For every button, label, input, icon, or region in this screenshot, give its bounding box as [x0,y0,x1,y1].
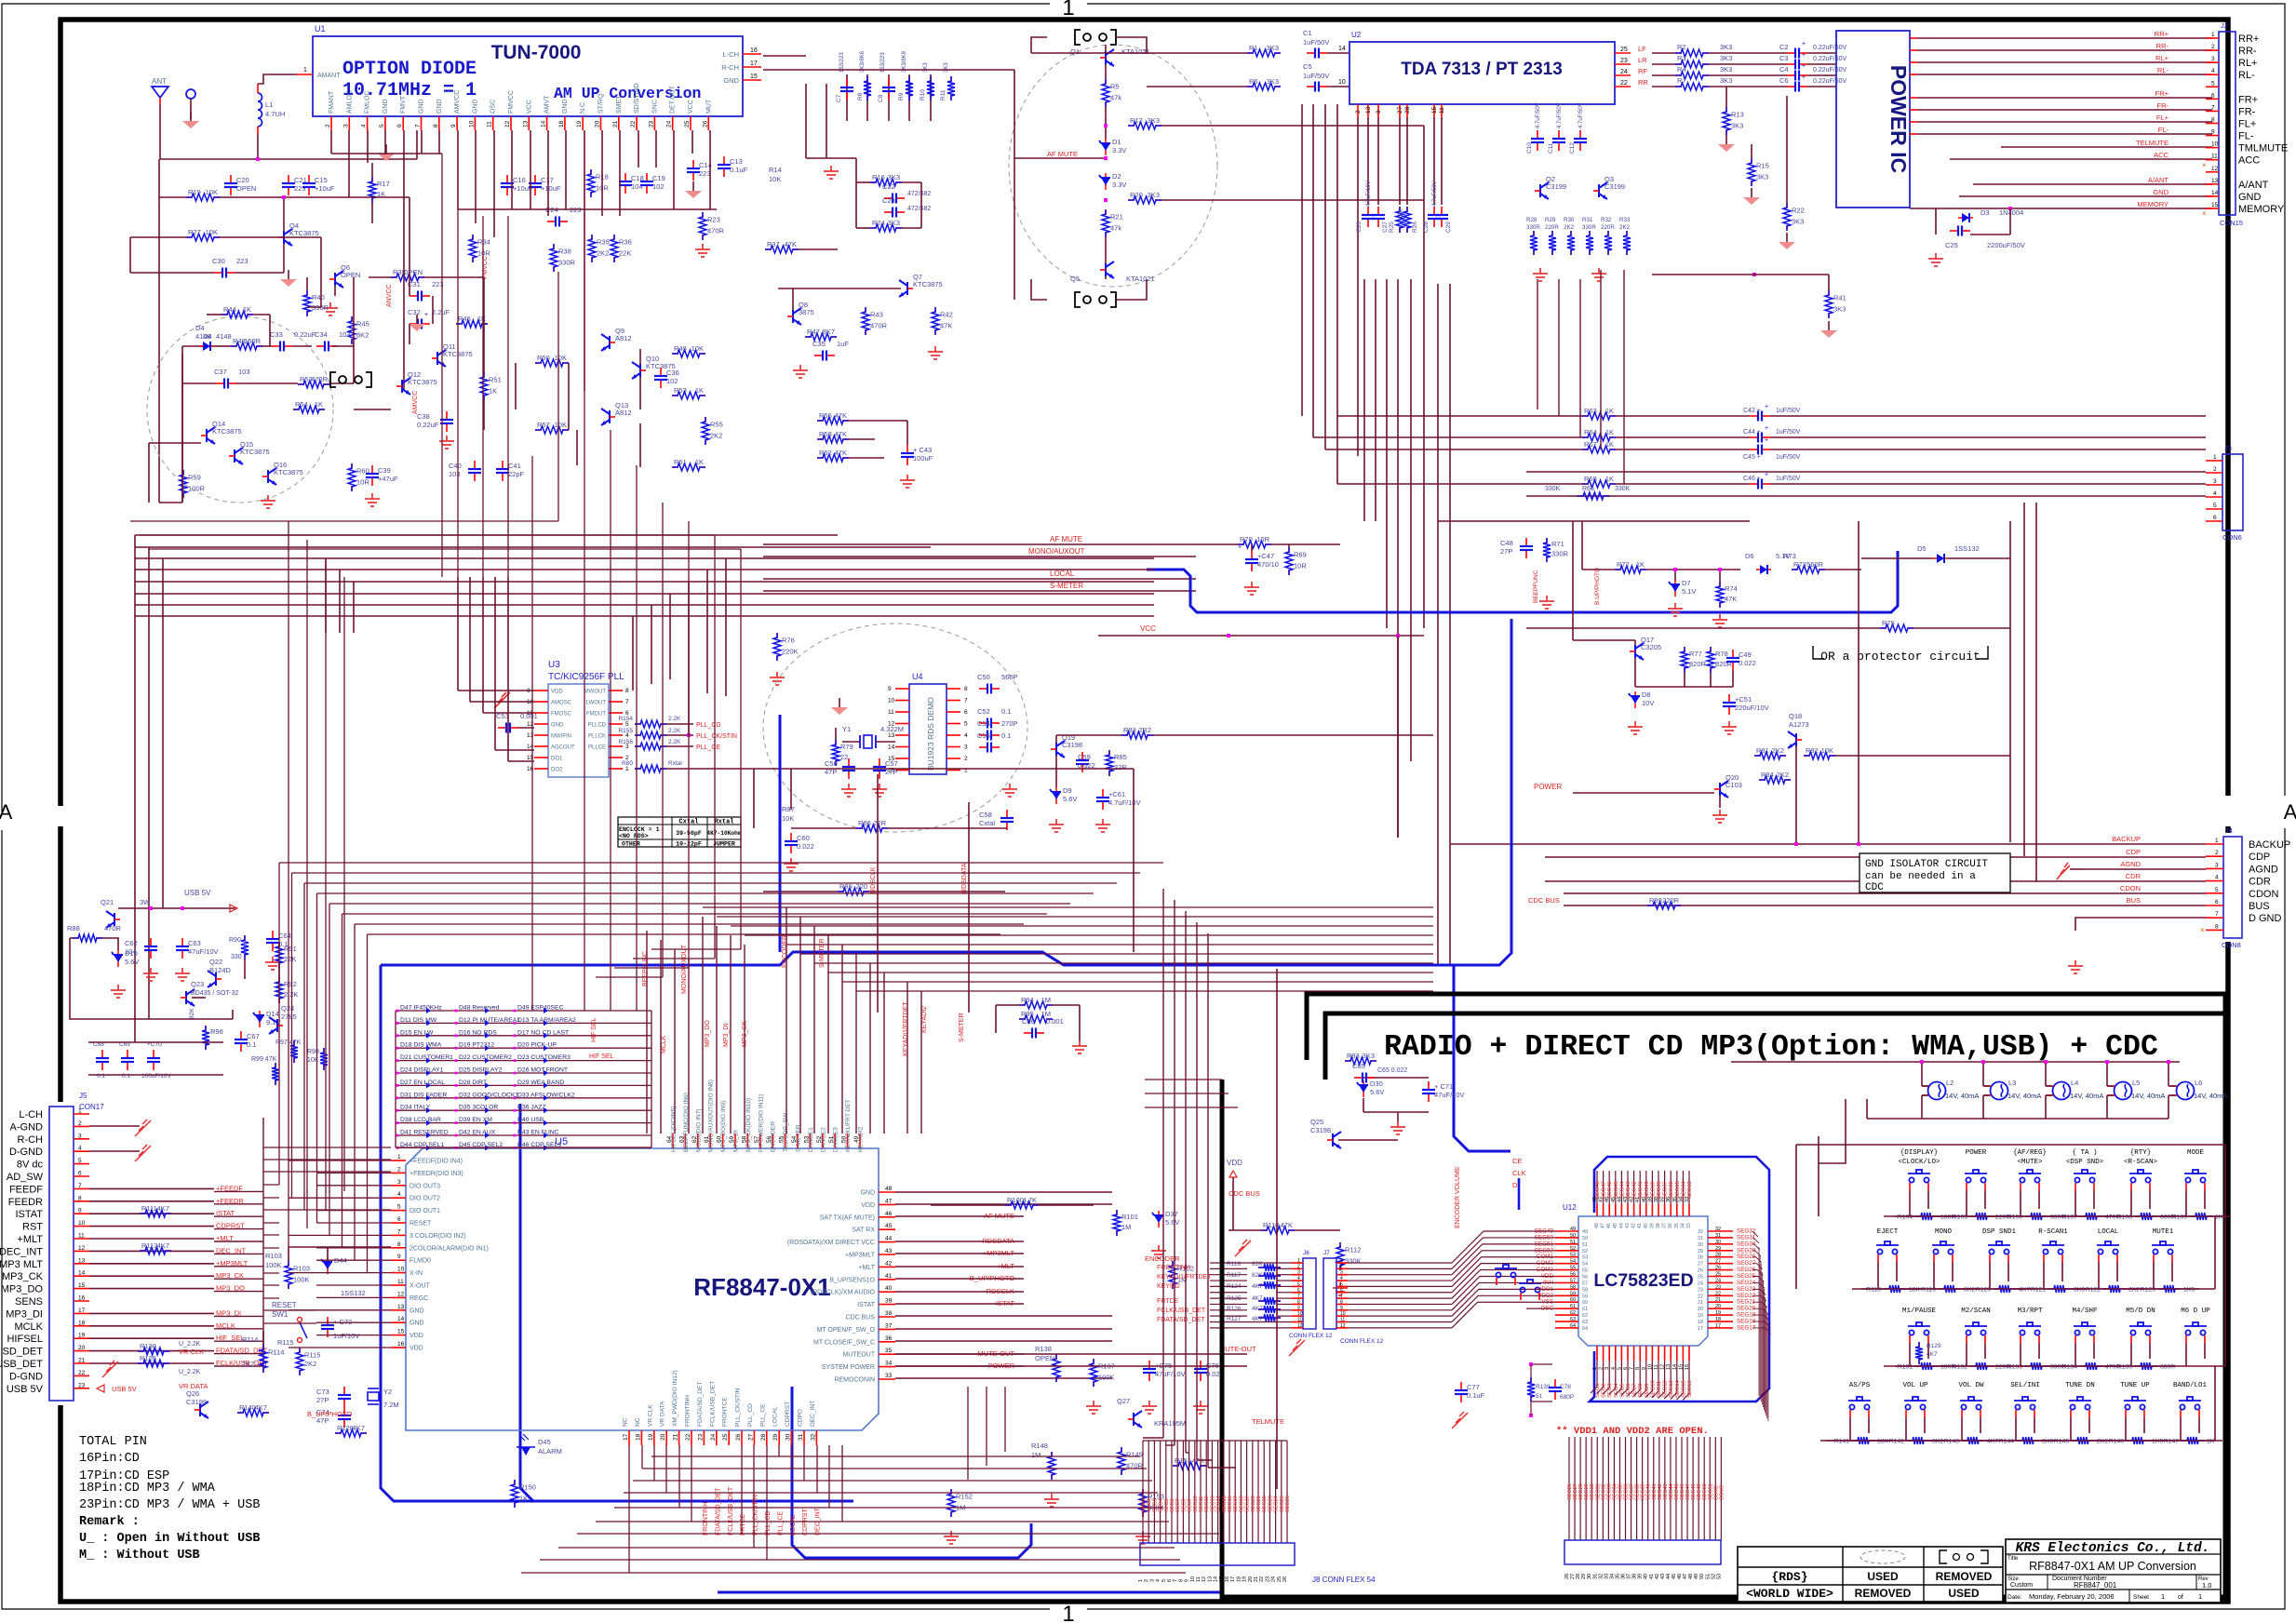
svg-text:42: 42 [1631,1223,1637,1228]
resistor R101 1M [1116,1210,1118,1215]
svg-text:3: 3 [1297,1270,1300,1276]
wire fan feeds from left [1142,1441,1144,1452]
resistor R103 100K [288,1261,289,1267]
earth [831,707,848,715]
wire R19 row [186,196,193,198]
diode D6 5.1V [1756,569,1771,570]
transistor Q10 KTC3875 [632,362,640,379]
svg-text:8: 8 [1340,1299,1343,1305]
svg-text:FR-: FR- [2157,101,2169,110]
svg-text:R47: R47 [807,328,820,336]
svg-text:4K7: 4K7 [255,1403,267,1412]
svg-text:MCLK: MCLK [14,1321,43,1333]
svg-text:12: 12 [1202,1576,1207,1582]
svg-text:F-POWER(DIO IN11): F-POWER(DIO IN11) [758,1093,764,1152]
svg-text:19: 19 [1242,1576,1248,1582]
svg-text:R64: R64 [1584,428,1597,436]
svg-text:C3199: C3199 [1546,182,1566,191]
antenna ANT [152,87,168,98]
capacitor C58 Cxtal [1006,810,1008,817]
svg-text:4: 4 [2213,490,2217,497]
svg-text:SEG35: SEG35 [1675,1181,1681,1199]
wire J7 fanout right [1348,1262,1452,1264]
svg-text:TUNE DN: TUNE DN [2065,1382,2095,1389]
transistor Q27 KRA105M [1134,1411,1142,1428]
svg-text:2.2K: 2.2K [668,716,681,722]
svg-text:MP3 MLT: MP3 MLT [0,1259,43,1270]
svg-text:22K: 22K [619,249,631,258]
svg-text:9: 9 [1340,1306,1343,1311]
svg-text:14: 14 [78,1270,86,1277]
svg-text:45: 45 [885,1223,893,1229]
svg-text:C103: C103 [1725,781,1742,789]
svg-text:SEG23: SEG23 [1268,1496,1273,1512]
svg-text:R44: R44 [223,305,236,314]
resistor R38 330R [553,244,555,249]
svg-text:13: 13 [78,1257,86,1264]
svg-text:8K2: 8K2 [1932,1439,1943,1445]
svg-text:OPEN: OPEN [341,271,360,279]
svg-text:58: 58 [1570,1284,1576,1290]
svg-text:ACC: ACC [2238,155,2260,167]
svg-text:C2: C2 [1779,43,1789,51]
svg-text:C77: C77 [1467,1383,1480,1391]
svg-text:25: 25 [1715,1272,1721,1278]
svg-text:32: 32 [1698,1229,1703,1235]
lamp L2 [1928,1082,1946,1100]
LCD driver U12 LC75823ED [1578,1216,1708,1346]
wire lamp feeds [1731,1061,1768,1063]
resistor R82b 10K [1804,755,1810,757]
svg-text:ISTAT: ISTAT [15,1209,43,1220]
transistor Q9 A812 [601,334,610,351]
resistor R42 47K [934,307,936,313]
svg-text:MWIFIN: MWIFIN [551,734,571,740]
svg-text:SEG18: SEG18 [1239,1496,1244,1512]
svg-text:KEYADI1/FRTDET: KEYADI1/FRTDET [903,1001,909,1056]
svg-text:CON17: CON17 [79,1103,104,1111]
svg-text:5: 5 [397,1204,401,1211]
svg-text:22: 22 [1620,80,1628,87]
svg-text:18: 18 [558,120,565,127]
svg-text:MP3_CK(DIO IN10): MP3_CK(DIO IN10) [745,1098,752,1152]
svg-text:RDSDATA: RDSDATA [961,863,968,893]
svg-text:RL-: RL- [2157,66,2169,74]
svg-text:Y2: Y2 [383,1388,392,1396]
svg-text:+: + [1802,41,1806,47]
svg-text:R146: R146 [2109,1439,2124,1445]
resistor R49 10K [672,353,678,355]
svg-text:C38: C38 [417,412,430,421]
ENCLOCK table [618,817,741,847]
svg-text:56: 56 [1570,1272,1576,1278]
svg-text:D48 Reserved: D48 Reserved [459,1005,500,1012]
svg-text:R69: R69 [1294,551,1307,559]
svg-text:DET.OUT: DET.OUT [670,85,677,114]
transistor Q13 A812 [601,409,610,425]
svg-text:38: 38 [885,1310,893,1317]
resistor R79 22 [835,740,837,745]
svg-text:R73: R73 [1793,560,1806,569]
svg-text:RF: RF [1638,67,1647,75]
svg-text:R93: R93 [1347,1052,1360,1060]
svg-text:can be needed in a: can be needed in a [1865,871,1976,882]
svg-text:5.6V: 5.6V [125,958,139,966]
svg-text:330R: 330R [1526,224,1540,231]
svg-text:10K: 10K [782,814,794,823]
wire [288,1247,289,1261]
svg-text:CDR: CDR [2249,877,2271,888]
svg-text:FCLK/USB_DET: FCLK/USB_DET [728,1486,734,1536]
svg-text:R10: R10 [920,89,926,101]
svg-text:R121: R121 [2031,1287,2046,1294]
resistor R9 [908,76,910,82]
svg-text:+: + [1802,63,1806,70]
svg-text:13: 13 [2211,178,2219,184]
svg-text:A-GND: A-GND [10,1121,44,1133]
svg-text:KTC3875: KTC3875 [274,468,303,476]
svg-text:D12 PI MUTE/AREA1: D12 PI MUTE/AREA1 [459,1017,520,1024]
svg-text:CDON: CDON [2120,884,2141,892]
svg-text:220uF/10V: 220uF/10V [1735,704,1769,712]
svg-text:R34: R34 [477,238,490,247]
svg-text:10: 10 [397,1267,405,1273]
svg-text:FR-: FR- [2238,106,2256,117]
svg-text:2K2: 2K2 [242,1360,254,1368]
svg-text:270P: 270P [1001,719,1018,728]
capacitor C22 472/682 [884,197,892,199]
svg-text:FRTCE: FRTCE [740,1513,746,1536]
svg-text:R150: R150 [519,1483,536,1492]
svg-text:11: 11 [2211,154,2218,160]
svg-text:OPEN: OPEN [1035,1354,1054,1362]
wire left edge verticals [134,535,136,1042]
svg-text:R120: R120 [1976,1287,1991,1294]
svg-text:23: 23 [1715,1284,1721,1290]
wire [1105,237,1107,263]
wire U3 left feeds [457,577,459,691]
svg-text:M_ : Without USB: M_ : Without USB [79,1549,200,1563]
svg-text:DANCE1: DANCE1 [808,1127,814,1152]
svg-text:Monday, February 20, 2006: Monday, February 20, 2006 [2029,1592,2115,1601]
svg-text:D25 DISPLAY2: D25 DISPLAY2 [459,1067,503,1074]
svg-text:7: 7 [1173,1579,1178,1582]
svg-text:R26: R26 [1412,221,1418,233]
svg-text:SEG41: SEG41 [1638,1181,1644,1199]
svg-text:10R: 10R [356,478,369,487]
svg-text:MONO: MONO [1935,1228,1953,1236]
svg-text:2: 2 [1144,1579,1149,1582]
svg-text:5: 5 [1340,1281,1343,1287]
svg-text:1: 1 [78,1108,82,1115]
svg-text:17: 17 [1715,1323,1721,1329]
svg-text:24: 24 [1698,1281,1703,1286]
capacitor C36 102 [660,368,662,375]
svg-text:KTC3875: KTC3875 [212,427,242,436]
svg-text:4148: 4148 [216,332,232,341]
svg-text:3K3: 3K3 [1720,76,1732,85]
wire U5 right rows [895,1191,1112,1193]
svg-text:LC75823ED: LC75823ED [1593,1270,1693,1291]
resistor R138 OPEN [1055,1354,1057,1360]
svg-text:1uF/50V: 1uF/50V [1776,454,1801,461]
svg-text:R85: R85 [1114,753,1127,761]
dashed ellipse RDS demod [763,624,1027,832]
svg-text:61: 61 [1570,1304,1576,1309]
connector J6 CONN FLEX 12 [1303,1258,1316,1329]
wire [1438,520,1750,522]
wire [216,345,231,347]
wire bus rb [763,55,806,57]
capacitor C41 22pF [502,461,504,468]
svg-text:5: 5 [964,721,968,728]
resistor R69 10R [1288,547,1290,553]
resistor R93 3K3 [1345,1060,1351,1062]
svg-text:10: 10 [1340,1311,1346,1317]
svg-text:44: 44 [885,1236,893,1242]
svg-text:SEG12: SEG12 [1204,1496,1210,1512]
resistor R114 2K2 [262,1345,264,1350]
ground [1928,253,1943,266]
zener D9 5.6V [1055,787,1057,804]
wire [778,288,901,289]
svg-text:L2: L2 [1946,1079,1954,1087]
wire [1935,208,1937,235]
svg-text:C35: C35 [812,340,826,348]
svg-text:3K3: 3K3 [1756,173,1768,181]
wire q-circle area [182,345,216,347]
svg-text:OTHER: OTHER [622,841,640,848]
svg-text:10K: 10K [691,344,704,353]
svg-text:U12: U12 [1563,1203,1577,1212]
svg-text:28: 28 [1715,1253,1721,1258]
ground [365,493,380,506]
svg-text:M2/SCAN: M2/SCAN [1961,1308,1991,1315]
wire mesh above U3 [135,557,1154,559]
resistor R17 1K [371,177,373,182]
wire verticals region B [805,84,807,158]
svg-text:R15: R15 [1756,162,1769,170]
wire J5 out rows [89,1187,214,1189]
svg-text:10: 10 [1297,1311,1303,1317]
svg-text:DSP SND1: DSP SND1 [1982,1228,2017,1236]
wire long rails center [1301,104,1303,416]
svg-text:29: 29 [1698,1249,1703,1254]
svg-text:0.22uF/50V: 0.22uF/50V [1813,56,1847,62]
svg-text:43: 43 [885,1248,893,1254]
svg-text:C3199: C3199 [186,1398,207,1406]
svg-text:1K: 1K [489,387,497,396]
resistor R128 4K7 [335,1432,342,1434]
svg-text:9: 9 [888,686,892,692]
svg-text:0.1: 0.1 [122,1073,130,1080]
svg-text:223: 223 [236,257,248,265]
svg-text:POWER IC: POWER IC [1886,65,1911,173]
resistor R56 47K [817,420,824,422]
svg-text:KTA1021: KTA1021 [1121,47,1150,56]
connector J8 CONN FLEX 54 fan [1142,1452,1144,1543]
svg-text:2K2: 2K2 [1777,771,1789,779]
audio processor U2 TDA 7313 / PT 2313 [1349,42,1615,104]
svg-text:51: 51 [1536,1393,1543,1400]
svg-text:R25: R25 [1389,221,1395,233]
svg-text:SEG2: SEG2 [1147,1498,1152,1512]
svg-text:R8: R8 [857,92,864,101]
capacitor C20 OPEN [230,175,232,182]
svg-text:C65 0.022: C65 0.022 [1377,1067,1407,1074]
capacitor C38 0.22uF [446,411,448,419]
wire J5 staircase risers [278,863,280,1185]
svg-text:59: 59 [1570,1291,1576,1296]
svg-text:MUTEOUT: MUTEOUT [842,1352,875,1359]
svg-text:R-SCAN1: R-SCAN1 [2038,1228,2068,1236]
transistor Q14 KTC3875 [207,427,215,444]
diode D44 1SS132 [327,1257,329,1274]
capacitor C17 10uF [534,175,536,182]
ground [1002,784,1017,797]
capacitor C62 104 [150,938,152,946]
svg-text:82K: 82K [189,1008,195,1019]
svg-text:+C51: +C51 [1735,695,1752,704]
svg-text:R115: R115 [277,1338,293,1347]
svg-text:VCC: VCC [688,100,694,114]
svg-text:+10uF: +10uF [541,184,561,193]
wire [1251,544,1253,551]
svg-text:GND: GND [436,99,443,114]
svg-text:Remark :: Remark : [79,1515,140,1529]
svg-text:MUTE1: MUTE1 [2153,1228,2174,1236]
svg-text:SEG33: SEG33 [1687,1181,1693,1199]
capacitor C21 223 [288,175,289,182]
svg-text:0.1: 0.1 [1001,731,1011,740]
ground [1628,721,1643,734]
svg-text:3.3V: 3.3V [1112,181,1126,189]
svg-text:SEG10: SEG10 [1193,1496,1199,1512]
svg-text:D3: D3 [1980,208,1990,217]
svg-text:{DISPLAY}: {DISPLAY} [1900,1149,1939,1157]
svg-text:Rxtal: Rxtal [668,760,682,767]
svg-text:1uF/50V: 1uF/50V [1303,72,1329,80]
svg-text:3 COLOR(DIO IN2): 3 COLOR(DIO IN2) [410,1233,466,1240]
svg-text:R61: R61 [674,458,687,466]
svg-text:4.7uF/50V: 4.7uF/50V [1557,102,1563,128]
transistor Q4 KTC3875 [284,229,292,246]
diode option matrix D11-D49 [396,1010,651,1012]
capacitor C60 0.022 [790,833,792,840]
svg-text:R94: R94 [1021,996,1034,1004]
svg-text:D2: D2 [1112,172,1121,181]
svg-text:4.7K: 4.7K [1023,1196,1037,1204]
svg-text:D26 MOT.FRONT: D26 MOT.FRONT [517,1067,568,1074]
svg-text:2K2: 2K2 [1564,224,1575,231]
svg-text:4: 4 [2211,68,2215,74]
wire LOCAL [763,578,1196,580]
svg-text:23: 23 [648,120,654,127]
wire [835,728,837,740]
resistor R67 1K [1582,449,1589,450]
resistor R130 2.2K [138,1350,144,1352]
svg-text:FRONTCE: FRONTCE [722,1397,729,1427]
transistor Q26 C3199 [200,1402,208,1418]
wire S-METER [763,590,1196,592]
svg-text:52: 52 [1570,1246,1576,1252]
wire J3 row3 [1325,449,1582,450]
svg-text:LOCAL: LOCAL [1050,570,1075,578]
svg-text:MODE: MODE [2187,1149,2205,1157]
svg-text:GND: GND [410,1321,424,1327]
svg-text:2K2: 2K2 [304,1360,316,1368]
svg-text:+: + [1765,472,1768,478]
capacitor C24 223 [547,221,555,222]
svg-text:4K7: 4K7 [157,1241,169,1250]
transistor Q1 KTA1021 [1106,49,1114,66]
transistor Q15 KTC3875 [235,448,243,464]
capacitor C54 270P [979,734,987,736]
ground [1712,810,1727,823]
svg-text:1K: 1K [243,305,251,314]
zener D1 3.3V [1105,139,1107,155]
svg-text:3K3: 3K3 [888,219,900,227]
svg-text:42: 42 [885,1260,893,1267]
svg-text:4.7uF/16V: 4.7uF/16V [1366,181,1372,207]
svg-text:64: 64 [1582,1326,1588,1332]
transistor Q17 C3205 [1635,643,1644,660]
svg-text:36: 36 [1668,1223,1673,1228]
wire CDON row [1564,892,2206,894]
capacitor C1 1uF/50V [1307,52,1314,54]
svg-text:14: 14 [888,744,895,751]
svg-text:C60: C60 [797,834,810,842]
svg-text:C52: C52 [977,707,990,716]
svg-text:R82: R82 [1806,746,1819,755]
blue ring around LC75823ED [1590,1157,1769,1402]
svg-text:41: 41 [1637,1223,1643,1228]
encoder switch 1 [1495,1265,1517,1278]
svg-text:FDATA/SD_DET: FDATA/SD_DET [697,1382,704,1427]
svg-text:C34: C34 [315,330,328,339]
svg-text:VDD: VDD [861,1202,875,1209]
resistor R20 3K3 [1128,199,1135,201]
svg-text:D8: D8 [1642,691,1651,699]
svg-text:CDP: CDP [2126,848,2141,856]
svg-text:C6: C6 [1779,76,1789,85]
svg-text:0.22uF/50V: 0.22uF/50V [1813,78,1847,85]
svg-text:34: 34 [885,1361,893,1367]
svg-text:ENCLOCK = 1: ENCLOCK = 1 [619,826,660,833]
transistor Q25 C3198 [1333,1132,1341,1148]
resistor R89b 220R [1647,905,1654,906]
svg-text:100K: 100K [1098,1374,1115,1382]
svg-text:54: 54 [1570,1259,1576,1265]
transistor Q12 KTC3875 [402,378,410,395]
ground [323,302,338,315]
svg-text:14: 14 [2211,190,2219,196]
svg-text:5: 5 [625,721,629,728]
svg-text:100K: 100K [293,1276,310,1284]
svg-text:6: 6 [2215,899,2219,905]
svg-text:C27: C27 [1382,221,1389,233]
svg-text:48: 48 [1594,1223,1600,1228]
capacitor C27 4.7uF/16V [1377,207,1379,214]
svg-text:10K: 10K [555,421,567,429]
svg-text:R126: R126 [1227,1306,1242,1312]
svg-text:R126: R126 [140,1354,156,1362]
capacitor C39 47uF [371,465,373,473]
svg-text:3: 3 [2211,56,2215,62]
resistor R85 22R [1108,750,1110,756]
svg-text:10R: 10R [1294,562,1307,570]
svg-text:D GND: D GND [2249,913,2282,924]
